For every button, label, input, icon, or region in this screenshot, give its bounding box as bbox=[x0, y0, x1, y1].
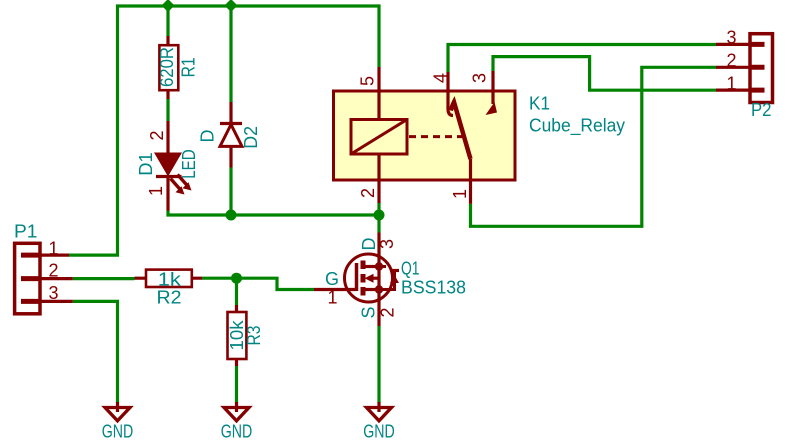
wire junction to Q1 gate bbox=[237, 278, 315, 289]
svg-text:2: 2 bbox=[147, 130, 167, 140]
svg-text:2: 2 bbox=[48, 261, 58, 281]
transistor Q1 BSS138 bbox=[314, 233, 399, 327]
junction top rail at D2 bbox=[225, 0, 238, 12]
relay pin 5 bbox=[377, 67, 380, 120]
svg-text:S: S bbox=[359, 306, 379, 318]
wire junction down to R3 bbox=[235, 278, 238, 305]
svg-text:D: D bbox=[359, 238, 379, 251]
svg-text:1: 1 bbox=[48, 238, 58, 258]
svg-text:2: 2 bbox=[726, 51, 736, 71]
internal junction dots bbox=[375, 262, 383, 270]
wire VCC rail: P1 pin1 up-left column, top rail, down to relay pin5 bbox=[69, 6, 379, 255]
svg-text:1: 1 bbox=[726, 73, 736, 93]
svg-text:R2: R2 bbox=[157, 288, 182, 308]
wire relay pin4 to P2 pin3 bbox=[448, 45, 716, 73]
svg-text:3: 3 bbox=[726, 28, 736, 48]
body diode bbox=[379, 267, 395, 290]
ground symbol left bbox=[105, 402, 130, 421]
svg-text:G: G bbox=[325, 269, 339, 289]
wire P1 pin3 to GND bbox=[73, 301, 118, 403]
svg-text:R3: R3 bbox=[244, 326, 264, 346]
relay pin 2 bbox=[377, 154, 380, 203]
wire Q1 source to GND bbox=[377, 326, 380, 403]
LED D1 bbox=[154, 121, 192, 211]
wire R2 to junction bbox=[202, 277, 237, 280]
svg-text:2: 2 bbox=[378, 307, 398, 317]
wire relay pin2 down to junction bbox=[377, 203, 380, 215]
gate pin bbox=[314, 288, 357, 291]
junction R2-R3-gate bbox=[231, 273, 242, 284]
junction D2 bottom row bbox=[226, 210, 237, 221]
wire D1 bottom row to D2 and Q1 drain junction bbox=[168, 211, 379, 216]
source connect bbox=[363, 288, 379, 291]
svg-text:2: 2 bbox=[358, 188, 378, 198]
svg-text:P2: P2 bbox=[751, 100, 772, 120]
svg-text:4: 4 bbox=[431, 73, 451, 83]
svg-text:1: 1 bbox=[146, 186, 166, 196]
svg-text:GND: GND bbox=[102, 422, 134, 442]
relay pin 1 bbox=[469, 159, 472, 204]
relay coil bbox=[351, 120, 407, 155]
wire D2 top from rail bbox=[229, 6, 232, 102]
svg-text:1k: 1k bbox=[158, 270, 182, 290]
svg-text:3: 3 bbox=[48, 283, 58, 303]
wire D2 bottom to junction bbox=[229, 168, 232, 216]
svg-text:D2: D2 bbox=[241, 126, 261, 149]
diode D2 bbox=[220, 102, 242, 168]
junction Q1 drain row bbox=[374, 210, 385, 221]
wire P1 pin2 to R2 bbox=[73, 277, 135, 280]
wire R3 to GND bbox=[235, 366, 238, 403]
wire R1 top from rail bbox=[166, 6, 169, 36]
svg-text:3: 3 bbox=[470, 73, 490, 83]
relay dashed actuator line bbox=[409, 135, 462, 138]
junction top rail at R1 bbox=[162, 0, 175, 12]
relay switch blade bbox=[451, 102, 471, 159]
svg-text:1: 1 bbox=[327, 288, 337, 308]
relay pin 3 with contact bbox=[491, 71, 494, 104]
wire relay pin3 to P2 pin1 bbox=[493, 57, 716, 91]
gate bar bbox=[355, 263, 359, 291]
svg-text:K1: K1 bbox=[529, 94, 550, 114]
wire P2 pin2 to relay pin1 bbox=[471, 67, 717, 226]
svg-text:BSS138: BSS138 bbox=[401, 278, 466, 298]
wire junction down to Q1 drain bbox=[377, 215, 380, 233]
svg-text:Cube_Relay: Cube_Relay bbox=[529, 116, 625, 137]
relay pin 4 with contact bbox=[448, 72, 453, 116]
svg-text:Q1: Q1 bbox=[401, 259, 420, 279]
svg-text:GND: GND bbox=[363, 422, 395, 442]
svg-text:P1: P1 bbox=[14, 222, 38, 242]
resistor R2 bbox=[135, 270, 203, 287]
svg-text:5: 5 bbox=[357, 76, 377, 86]
wire R1 bottom to LED bbox=[166, 99, 169, 121]
channel segments bbox=[361, 261, 366, 270]
svg-text:D: D bbox=[198, 130, 218, 143]
svg-text:D1: D1 bbox=[136, 152, 156, 176]
svg-text:R1: R1 bbox=[179, 57, 199, 77]
main vertical D-S bbox=[377, 233, 380, 327]
resistor R1 bbox=[159, 36, 178, 99]
svg-text:GND: GND bbox=[221, 422, 253, 442]
svg-text:620R: 620R bbox=[157, 47, 177, 87]
drain connect bbox=[363, 265, 379, 268]
ground symbol middle bbox=[224, 402, 249, 421]
substrate arrow bbox=[372, 277, 379, 280]
relay coil diagonal bbox=[351, 120, 407, 155]
svg-text:LED: LED bbox=[179, 149, 199, 179]
svg-text:3: 3 bbox=[377, 239, 397, 249]
svg-text:1: 1 bbox=[450, 189, 470, 199]
relay K1 body bbox=[334, 91, 516, 180]
ground symbol right bbox=[367, 402, 392, 421]
connector P1 bbox=[15, 243, 73, 313]
connector P2 bbox=[716, 34, 773, 103]
resistor R3 bbox=[228, 305, 247, 366]
